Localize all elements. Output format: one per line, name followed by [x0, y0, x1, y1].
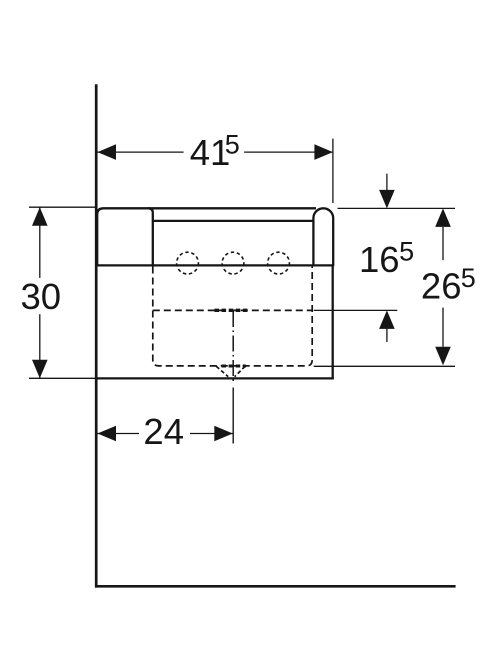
- cabinet interior dashed outline: [153, 267, 312, 366]
- dim 16.5 bottom extension line: [314, 309, 398, 311]
- floor: [95, 585, 456, 588]
- center line extension: [232, 388, 234, 444]
- washbasin bottom / cabinet top: [97, 264, 333, 266]
- svg-text:165: 165: [359, 237, 414, 280]
- dim 41.5 right extension line: [332, 139, 334, 203]
- dim 26.5 down arrow shaft: [442, 308, 444, 347]
- washbasin left support right edge: [148, 208, 153, 265]
- svg-text:24: 24: [143, 411, 184, 452]
- dim 30 top tick: [29, 206, 95, 208]
- dim 30 line upper segment: [39, 207, 41, 278]
- dim 41.5 line right segment: [244, 151, 333, 153]
- dim 24 right arrowhead: [214, 426, 233, 442]
- dim 24 line right segment: [190, 433, 233, 435]
- dim 16.5 down arrowhead: [379, 190, 395, 209]
- dim 26.5 bottom extension line: [314, 365, 455, 367]
- trap funnel left dashed: [216, 366, 228, 377]
- dim 26.5 up arrowhead: [435, 208, 451, 227]
- cabinet bottom: [97, 377, 334, 379]
- tap hole middle: [222, 252, 244, 274]
- dim 16.5 top extension line (shared with 26.5): [338, 207, 456, 209]
- dim 16.5 up arrowhead: [379, 310, 395, 329]
- dim 41.5 left arrowhead: [98, 144, 117, 160]
- dim 24 line left segment: [98, 433, 140, 435]
- washbasin inner rim line: [153, 220, 314, 222]
- dim 30 line lower segment: [39, 314, 41, 378]
- washbasin right bullnose edge: [313, 208, 333, 266]
- dim 30 top arrowhead: [32, 207, 48, 226]
- dim 24 left arrowhead: [98, 426, 117, 442]
- tap hole left: [177, 252, 199, 274]
- dim 41.5 right arrowhead: [314, 144, 333, 160]
- dim 26.5 down arrowhead: [435, 347, 451, 366]
- svg-text:30: 30: [21, 276, 62, 317]
- trap funnel right dashed: [235, 366, 246, 377]
- tap hole right: [268, 252, 290, 274]
- interior mid dashed line: [153, 309, 312, 311]
- dim 16.5 down arrow shaft: [386, 174, 388, 191]
- dim 26.5 up arrow shaft: [442, 227, 444, 260]
- svg-text:415: 415: [190, 130, 240, 173]
- drain center line (dash-dot): [232, 311, 234, 382]
- wall: [95, 84, 98, 587]
- dim 30 bottom tick: [29, 377, 95, 379]
- svg-text:265: 265: [421, 263, 476, 306]
- cabinet right edge: [332, 266, 334, 378]
- dim 41.5 line left segment: [98, 151, 184, 153]
- dim 30 bottom arrowhead: [32, 360, 48, 379]
- trap top hidden dashes: [222, 365, 247, 368]
- drain flange hidden dashes: [215, 309, 249, 312]
- washbasin outer outline: [97, 208, 316, 266]
- dim 16.5 up arrow shaft: [386, 328, 388, 342]
